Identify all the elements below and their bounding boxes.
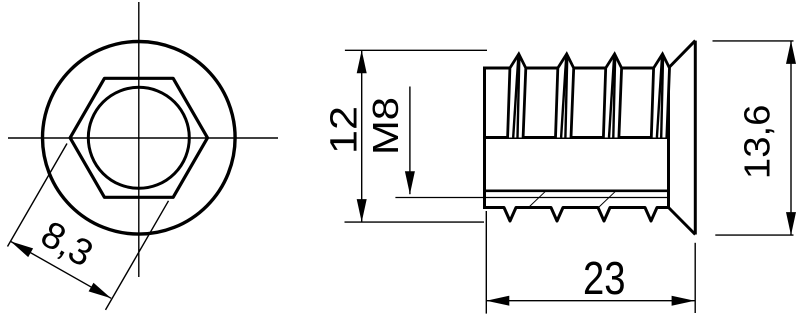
flange top cone edge — [669, 41, 696, 68]
flange rim face — [694, 41, 697, 235]
side view: body left edge — [483, 67, 486, 210]
M8 leader line — [409, 87, 411, 195]
dim 13,6 arrow up — [786, 41, 796, 64]
dim 12 top extension line — [345, 49, 487, 51]
side view: band helix line 2 — [599, 191, 616, 207]
side view: collar band line — [485, 190, 669, 193]
dim 13,6 bottom extension line — [715, 234, 793, 236]
front view: inner bore circle — [88, 87, 189, 188]
front view: horizontal centerline — [8, 137, 278, 139]
dim 12 bottom extension line — [345, 221, 485, 223]
dim 12 arrow up — [357, 50, 367, 73]
front view: hex socket — [70, 78, 207, 197]
dim 12 arrow down — [357, 199, 367, 222]
svg-text:M8: M8 — [365, 97, 406, 155]
svg-text:23: 23 — [583, 252, 626, 304]
dim 8,3 arrow lower-right — [89, 283, 112, 299]
front view: vertical centerline — [138, 2, 140, 277]
dim 8,3 dimension line — [11, 241, 112, 298]
flange bottom cone edge — [669, 208, 696, 235]
dim 8,3 extension line 1 — [8, 144, 68, 247]
dim 13,6 arrow down — [786, 212, 796, 235]
svg-text:12: 12 — [323, 106, 365, 154]
side view: body right edge — [667, 67, 670, 210]
side view: thread root mid line — [485, 136, 669, 139]
side view: bottom edge with cutting teeth — [485, 208, 669, 222]
dim 23 right extension line — [694, 243, 696, 313]
dim 8,3 arrow upper-left — [11, 241, 33, 257]
dim 23 left extension line — [485, 211, 487, 314]
thread tooth 3 — [603, 54, 621, 138]
svg-text:13,6: 13,6 — [737, 105, 778, 180]
dim 23 dimension line — [486, 300, 694, 302]
M8 leader arrow — [405, 171, 415, 194]
dim 12 dimension line — [361, 50, 363, 222]
thread tooth 2 — [556, 54, 574, 138]
side view: body top edge — [485, 67, 669, 70]
dim 13,6 top extension line — [713, 40, 794, 42]
front view: outer flange circle — [43, 42, 236, 235]
thread tooth 4 — [651, 54, 669, 138]
dim 13,6 dimension line — [790, 41, 792, 235]
dim 23 arrow left — [486, 296, 509, 306]
thread tooth 1 — [508, 54, 526, 138]
dim 8,3 extension line 2 — [106, 201, 169, 310]
side view: band helix line 1 — [529, 191, 546, 207]
side view: internal thread line (M8 target) — [395, 197, 668, 199]
dim 23 arrow right — [672, 296, 695, 306]
